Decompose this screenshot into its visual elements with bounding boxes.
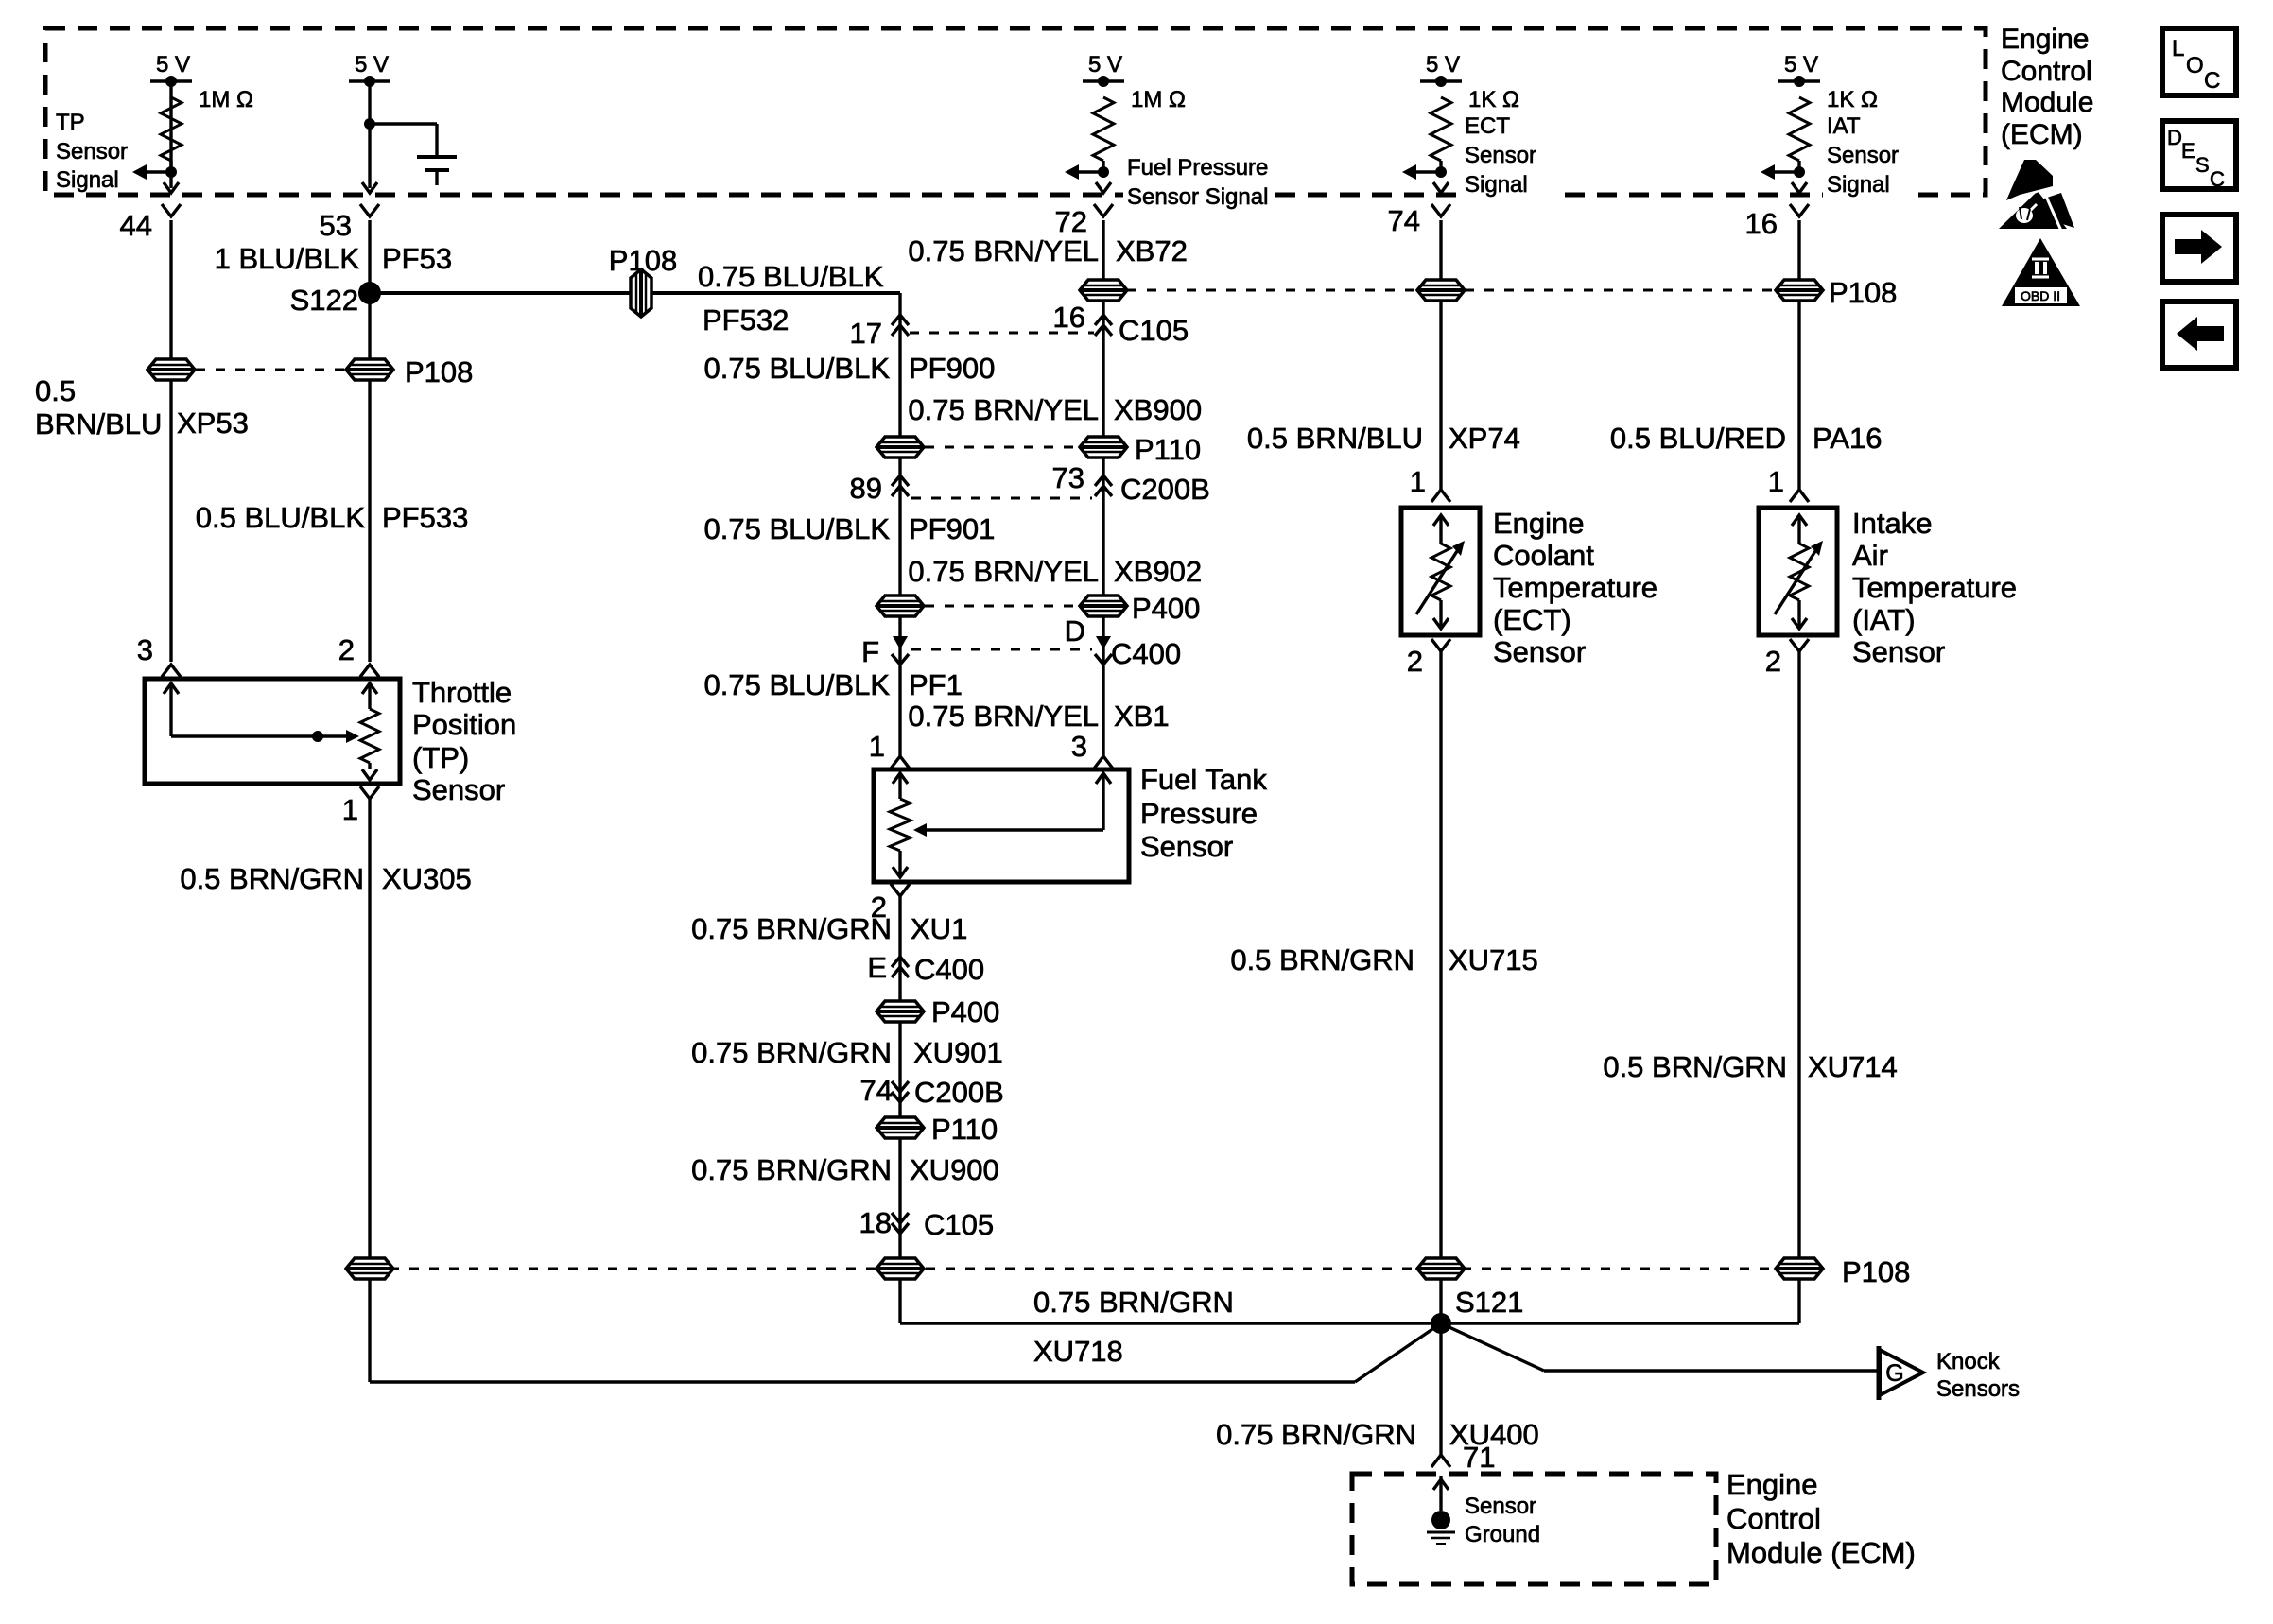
svg-text:Sensor: Sensor xyxy=(1465,143,1536,168)
svg-text:1: 1 xyxy=(342,793,358,826)
svg-text:0.75 BRN/YEL: 0.75 BRN/YEL xyxy=(908,555,1099,588)
svg-text:XB72: XB72 xyxy=(1116,234,1188,268)
svg-text:Temperature: Temperature xyxy=(1493,571,1657,604)
svg-text:Knock: Knock xyxy=(1936,1349,2001,1374)
svg-text:Sensor: Sensor xyxy=(56,139,128,164)
svg-text:TP: TP xyxy=(56,110,85,135)
svg-text:5 V: 5 V xyxy=(1426,52,1460,78)
svg-text:2: 2 xyxy=(1407,645,1423,678)
svg-text:Fuel Pressure: Fuel Pressure xyxy=(1127,155,1268,181)
svg-text:P108: P108 xyxy=(1842,1255,1910,1288)
svg-text:PF901: PF901 xyxy=(909,512,995,545)
svg-text:0.75 BRN/YEL: 0.75 BRN/YEL xyxy=(908,700,1099,733)
svg-text:Fuel Tank: Fuel Tank xyxy=(1140,763,1267,796)
svg-text:1M Ω: 1M Ω xyxy=(1131,87,1186,112)
svg-text:0.75 BLU/BLK: 0.75 BLU/BLK xyxy=(704,512,891,545)
svg-text:0.5: 0.5 xyxy=(35,374,76,407)
svg-text:16: 16 xyxy=(1053,301,1085,334)
svg-text:18: 18 xyxy=(859,1206,892,1239)
svg-text:Sensor: Sensor xyxy=(1852,635,1945,668)
svg-text:74: 74 xyxy=(860,1074,893,1107)
svg-text:PF1: PF1 xyxy=(909,668,963,701)
svg-text:0.75 BLU/BLK: 0.75 BLU/BLK xyxy=(704,352,891,385)
svg-text:17: 17 xyxy=(850,317,882,350)
svg-text:G: G xyxy=(1885,1360,1903,1387)
svg-text:XU1: XU1 xyxy=(911,912,967,945)
svg-text:P108: P108 xyxy=(1829,276,1897,309)
svg-text:0.75 BLU/BLK: 0.75 BLU/BLK xyxy=(698,260,884,293)
svg-text:Sensor: Sensor xyxy=(412,773,505,806)
svg-text:Sensor: Sensor xyxy=(1140,830,1233,863)
svg-text:P108: P108 xyxy=(609,244,677,277)
svg-text:Intake: Intake xyxy=(1852,507,1932,540)
svg-text:P108: P108 xyxy=(405,355,473,389)
svg-text:PF900: PF900 xyxy=(909,352,995,385)
svg-text:0.75 BRN/GRN: 0.75 BRN/GRN xyxy=(691,1036,892,1069)
svg-text:1: 1 xyxy=(1768,465,1784,498)
svg-text:74: 74 xyxy=(1388,204,1420,237)
svg-text:C: C xyxy=(2210,167,2225,191)
svg-text:S121: S121 xyxy=(1455,1286,1523,1319)
svg-text:C200B: C200B xyxy=(914,1076,1004,1109)
svg-text:Sensor: Sensor xyxy=(1465,1494,1536,1519)
svg-text:Module (ECM): Module (ECM) xyxy=(1726,1536,1916,1569)
svg-text:Sensor: Sensor xyxy=(1827,143,1899,168)
svg-text:PF53: PF53 xyxy=(382,242,452,275)
svg-text:OBD II: OBD II xyxy=(2021,288,2060,303)
svg-text:(ECT): (ECT) xyxy=(1493,603,1571,636)
svg-text:0.5 BRN/GRN: 0.5 BRN/GRN xyxy=(1603,1050,1787,1083)
svg-text:89: 89 xyxy=(850,472,882,505)
svg-text:Control: Control xyxy=(1726,1502,1821,1535)
svg-text:1K Ω: 1K Ω xyxy=(1468,87,1519,112)
svg-text:C200B: C200B xyxy=(1120,473,1210,506)
svg-text:Control: Control xyxy=(2001,56,2092,87)
svg-text:Engine: Engine xyxy=(1726,1468,1818,1501)
svg-text:BRN/BLU: BRN/BLU xyxy=(35,407,162,441)
svg-text:C: C xyxy=(2204,68,2220,94)
svg-text:0.5 BRN/BLU: 0.5 BRN/BLU xyxy=(1247,422,1423,455)
svg-text:3: 3 xyxy=(137,633,153,666)
svg-text:XU718: XU718 xyxy=(1033,1335,1123,1368)
svg-text:1 BLU/BLK: 1 BLU/BLK xyxy=(215,242,360,275)
svg-text:P110: P110 xyxy=(1135,433,1201,466)
svg-text:Coolant: Coolant xyxy=(1493,539,1594,572)
svg-text:XU715: XU715 xyxy=(1449,943,1538,976)
svg-text:0.75 BRN/GRN: 0.75 BRN/GRN xyxy=(1216,1418,1416,1451)
svg-text:D: D xyxy=(2167,126,2182,149)
svg-text:1M Ω: 1M Ω xyxy=(199,87,253,112)
svg-text:D: D xyxy=(1065,614,1085,648)
svg-text:Air: Air xyxy=(1852,539,1888,572)
svg-text:Module: Module xyxy=(2001,87,2093,118)
svg-text:1: 1 xyxy=(869,730,885,763)
svg-text:0.75 BRN/GRN: 0.75 BRN/GRN xyxy=(1033,1286,1234,1319)
svg-text:Sensor Signal: Sensor Signal xyxy=(1127,184,1268,210)
svg-text:5 V: 5 V xyxy=(156,52,190,78)
svg-text:Position: Position xyxy=(412,708,516,741)
svg-text:C400: C400 xyxy=(1111,637,1181,670)
svg-text:P400: P400 xyxy=(1132,592,1200,625)
svg-text:C105: C105 xyxy=(924,1208,994,1241)
svg-text:XB902: XB902 xyxy=(1114,555,1202,588)
svg-text:53: 53 xyxy=(320,209,352,242)
svg-text:3: 3 xyxy=(1071,730,1087,763)
svg-text:XU901: XU901 xyxy=(913,1036,1003,1069)
svg-text:0.75 BLU/BLK: 0.75 BLU/BLK xyxy=(704,668,891,701)
svg-text:PA16: PA16 xyxy=(1813,422,1883,455)
svg-text:F: F xyxy=(861,635,879,668)
svg-text:Pressure: Pressure xyxy=(1140,797,1258,830)
svg-text:XP74: XP74 xyxy=(1449,422,1520,455)
svg-text:P400: P400 xyxy=(931,995,999,1028)
svg-text:73: 73 xyxy=(1052,461,1084,494)
svg-text:C105: C105 xyxy=(1119,314,1189,347)
svg-text:16: 16 xyxy=(1745,207,1778,240)
svg-text:XU305: XU305 xyxy=(382,862,472,895)
svg-text:Signal: Signal xyxy=(56,167,119,193)
svg-text:L: L xyxy=(2172,36,2184,61)
svg-text:PF532: PF532 xyxy=(703,303,789,337)
svg-text:0.75 BRN/YEL: 0.75 BRN/YEL xyxy=(908,393,1099,426)
svg-text:XU900: XU900 xyxy=(910,1153,999,1186)
svg-text:0.5 BLU/BLK: 0.5 BLU/BLK xyxy=(196,501,366,534)
svg-text:C400: C400 xyxy=(914,953,984,986)
svg-text:Temperature: Temperature xyxy=(1852,571,2017,604)
svg-text:72: 72 xyxy=(1055,205,1087,238)
svg-text:5 V: 5 V xyxy=(1784,52,1818,78)
svg-text:Signal: Signal xyxy=(1827,172,1890,198)
svg-text:XP53: XP53 xyxy=(177,406,249,440)
svg-text:Signal: Signal xyxy=(1465,172,1528,198)
svg-text:Ground: Ground xyxy=(1465,1522,1540,1547)
svg-text:2: 2 xyxy=(338,633,355,666)
svg-text:S122: S122 xyxy=(290,284,358,317)
svg-text:0.75 BRN/GRN: 0.75 BRN/GRN xyxy=(691,912,892,945)
svg-text:E: E xyxy=(2181,139,2195,163)
svg-text:1K Ω: 1K Ω xyxy=(1827,87,1878,112)
svg-text:Sensor: Sensor xyxy=(1493,635,1586,668)
svg-text:(ECM): (ECM) xyxy=(2001,119,2083,150)
svg-text:IAT: IAT xyxy=(1827,113,1861,139)
svg-text:0.5 BLU/RED: 0.5 BLU/RED xyxy=(1610,422,1786,455)
svg-text:XU714: XU714 xyxy=(1808,1050,1898,1083)
svg-text:XB1: XB1 xyxy=(1114,700,1170,733)
svg-text:Engine: Engine xyxy=(1493,507,1585,540)
svg-text:5 V: 5 V xyxy=(355,52,389,78)
svg-text:S: S xyxy=(2195,153,2210,177)
svg-text:2: 2 xyxy=(1765,645,1781,678)
svg-text:0.5 BRN/GRN: 0.5 BRN/GRN xyxy=(180,862,364,895)
svg-text:Sensors: Sensors xyxy=(1936,1376,2020,1402)
svg-text:Throttle: Throttle xyxy=(412,676,512,709)
svg-text:ECT: ECT xyxy=(1465,113,1510,139)
svg-text:(TP): (TP) xyxy=(412,741,469,774)
svg-text:0.75 BRN/YEL: 0.75 BRN/YEL xyxy=(908,234,1099,268)
svg-text:(IAT): (IAT) xyxy=(1852,603,1916,636)
svg-text:E: E xyxy=(867,951,887,984)
svg-text:71: 71 xyxy=(1463,1441,1495,1474)
svg-text:0.75 BRN/GRN: 0.75 BRN/GRN xyxy=(691,1153,892,1186)
svg-text:0.5 BRN/GRN: 0.5 BRN/GRN xyxy=(1230,943,1414,976)
svg-text:XB900: XB900 xyxy=(1114,393,1202,426)
svg-text:PF533: PF533 xyxy=(382,501,468,534)
svg-text:Engine: Engine xyxy=(2001,24,2089,55)
svg-text:5 V: 5 V xyxy=(1088,52,1122,78)
svg-text:44: 44 xyxy=(120,209,152,242)
svg-text:1: 1 xyxy=(1410,465,1426,498)
svg-text:O: O xyxy=(2186,53,2204,78)
svg-text:P110: P110 xyxy=(931,1113,998,1146)
